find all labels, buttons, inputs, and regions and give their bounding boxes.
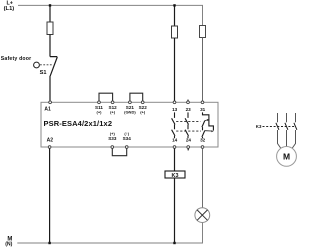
svg-text:(+): (+) bbox=[140, 110, 146, 115]
svg-text:K3: K3 bbox=[172, 173, 179, 179]
svg-text:A2: A2 bbox=[47, 137, 54, 143]
svg-text:(GND): (GND) bbox=[124, 110, 136, 115]
svg-text:24: 24 bbox=[186, 138, 192, 143]
svg-text:23: 23 bbox=[186, 107, 192, 112]
svg-text:M: M bbox=[283, 151, 290, 161]
svg-text:(L1): (L1) bbox=[4, 6, 15, 12]
svg-text:Safety door: Safety door bbox=[1, 56, 32, 62]
svg-text:(+): (+) bbox=[97, 110, 103, 115]
svg-text:PSR-ESA4/2x1/1x2: PSR-ESA4/2x1/1x2 bbox=[44, 119, 113, 128]
svg-text:13: 13 bbox=[172, 107, 178, 112]
svg-text:S33: S33 bbox=[108, 136, 117, 141]
svg-text:S1: S1 bbox=[40, 70, 47, 76]
svg-text:S34: S34 bbox=[123, 136, 132, 141]
svg-text:32: 32 bbox=[200, 138, 206, 143]
svg-text:31: 31 bbox=[200, 107, 206, 112]
svg-text:A1: A1 bbox=[44, 107, 51, 113]
svg-text:(+): (+) bbox=[110, 110, 116, 115]
svg-text:K3: K3 bbox=[256, 124, 262, 129]
svg-text:14: 14 bbox=[172, 138, 178, 143]
svg-text:(N): (N) bbox=[5, 241, 12, 247]
